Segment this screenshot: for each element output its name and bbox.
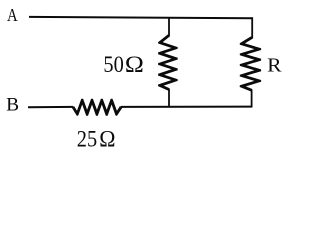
resistor 50 ohm (vertical zigzag) <box>158 34 178 91</box>
resistor R (vertical zigzag) <box>240 36 261 91</box>
wire: top rail from A across to right corner <box>29 17 253 18</box>
svg-text:50: 50 <box>103 52 123 77</box>
svg-text:B: B <box>6 95 19 115</box>
svg-text:R: R <box>267 53 282 76</box>
svg-text:Ω: Ω <box>99 126 115 152</box>
svg-text:Ω: Ω <box>125 52 144 78</box>
resistor 25 ohm (horizontal zigzag) <box>72 99 123 116</box>
wire: 50-ohm branch top vertical <box>168 17 170 36</box>
wire: 50-ohm branch bottom vertical <box>168 89 170 107</box>
wire: right branch bottom vertical <box>251 90 253 107</box>
wire: bottom rail right segment to R branch <box>121 106 252 108</box>
svg-text:25: 25 <box>77 126 97 151</box>
wire: right branch top vertical <box>251 17 253 38</box>
svg-text:A: A <box>7 4 18 25</box>
wire: bottom rail left segment from B <box>28 106 73 108</box>
